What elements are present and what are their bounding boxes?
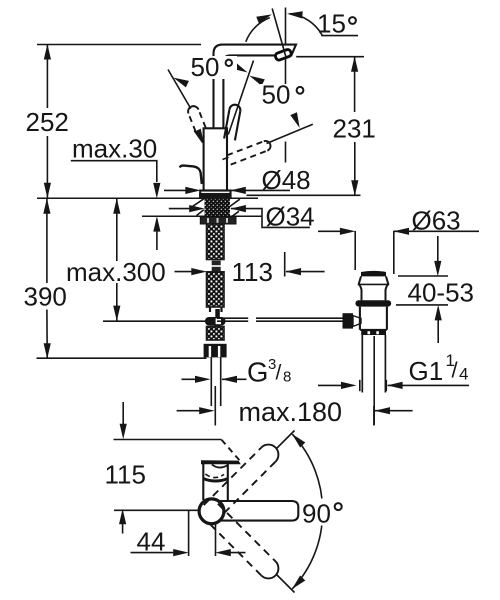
svg-text:Ø63: Ø63 [412,206,461,236]
spout bar solid [214,501,298,521]
aerator at spout tip [275,49,292,61]
svg-text:90: 90 [302,499,331,529]
wire: 390 bottom reference line [37,357,207,359]
faucet body [204,128,227,190]
svg-text:50: 50 [262,80,291,110]
hose break nipple [212,261,221,266]
90 degree arc [292,434,322,589]
bottom-view faucet body [199,460,298,524]
drain plug cap [361,271,386,277]
svg-text:40-53: 40-53 [408,278,475,308]
svg-text:G1: G1 [409,356,444,386]
svg-text:Ø48: Ø48 [262,165,311,195]
dashed lever capsule upper-left [186,105,205,132]
lever axis middle (solid lever) [228,61,253,135]
wire: deck bottom line [142,215,262,217]
svg-text:113: 113 [232,257,273,287]
drain body [360,307,387,330]
node: 113 right tick (spout centerline below) [284,252,286,277]
svg-text:44: 44 [137,527,166,557]
raised lever dashed line (side view) [222,440,240,461]
body outline [203,464,228,501]
flexible hose lower section [207,272,225,307]
mounting nut under deck [200,217,236,224]
wire: 231 dimension line [354,57,356,112]
wire: max.30 leader underline [71,161,157,182]
hose stub lines [209,307,211,313]
svg-text:4: 4 [459,365,468,384]
drain flange (gasket) [355,300,391,306]
90 deg arc arrows [289,431,305,447]
supply pipes [210,357,212,406]
swivel fan: dashed spout down position [204,504,283,583]
svg-text:50: 50 [191,52,220,82]
svg-text:max.300: max.300 [66,257,166,287]
ball joint outline [199,499,224,524]
svg-text:G: G [247,357,268,388]
cartridge dashed arc [205,474,224,478]
115 dimension stubs [122,402,124,435]
svg-text:max.30: max.30 [72,134,157,164]
rod connector block at drain [343,313,354,328]
reference line top [114,439,222,441]
dimension max.180 shafts + ticks [177,410,211,412]
lever axis right (dashed lowered position) [267,124,313,143]
svg-text:115: 115 [105,460,146,490]
wire: Ø48 label underline / 231 bottom reference [247,194,361,196]
reference line bottom with notch [114,506,199,510]
lever axis left (dashed lever position) [168,70,191,109]
svg-text:/: / [276,362,282,385]
bottom view [120,424,127,440]
cartridge dome edge [212,464,229,467]
wire: max.30 lower arrow shaft [156,220,158,250]
faucet base flange [200,191,230,198]
vertical centerline through spout tip [285,8,287,45]
bottom cap nut [204,344,227,358]
fan thin axis lines [277,431,295,449]
wire: deck/mounting surface top line [37,197,258,199]
dimension Ø34 shafts + stepped leader [169,208,201,210]
svg-text:252: 252 [26,107,69,137]
dimension G1 1/4 shafts + ticks [318,384,353,386]
50 deg arrows [172,74,189,87]
drain lock ring [361,330,386,335]
lever bar (top view) [201,460,241,464]
swivel fan: dashed spout up position [204,440,283,519]
body waist thick arc [203,479,227,481]
degree symbols [226,17,356,510]
44 extension lines [188,511,190,556]
dimension 113 shafts [175,271,204,273]
drain tailpipe [361,335,363,393]
dimension 40-53 refs [398,275,448,277]
wire: 252 top reference line [37,44,201,46]
ball joint white fill [199,499,224,524]
wire: max.300 dimension line [116,198,118,320]
Ø63 extension lines [354,231,356,270]
15-degree slanted line [272,9,286,57]
drain flared neck [359,276,389,300]
svg-text:8: 8 [283,369,291,386]
dimension Ø63 line [318,230,352,232]
dashed lever capsule right [227,140,272,165]
wire: max.300 bottom ref merging into pop-up rod [103,320,217,322]
15 deg arc arrows [256,11,273,23]
44 dimension shafts [131,552,185,554]
svg-text:231: 231 [333,114,376,144]
pop-up rod knob on body left [180,166,202,184]
svg-text:Ø34: Ø34 [266,201,315,231]
svg-text:15: 15 [317,9,346,39]
svg-text:max.180: max.180 [239,397,343,427]
drain centerline [373,336,375,425]
flexible hose upper section [207,224,225,260]
rod cross fitting [215,309,220,318]
wire: 252/390 dimension line [46,45,48,109]
wire: 231 top reference line [296,56,364,58]
solid lever capsule [224,104,241,141]
threaded shank between deck lines [205,199,231,217]
faucet spout and neck outline [214,45,297,129]
15 degree arc left segment [246,18,270,42]
svg-text:390: 390 [24,282,67,312]
lower hose block [207,327,225,341]
svg-text:/: / [452,358,459,383]
15 degree arc right segment + label underline [290,14,359,36]
dimension Ø48 arrows shafts [164,189,197,191]
dimension G 3/8 shafts [182,378,207,380]
